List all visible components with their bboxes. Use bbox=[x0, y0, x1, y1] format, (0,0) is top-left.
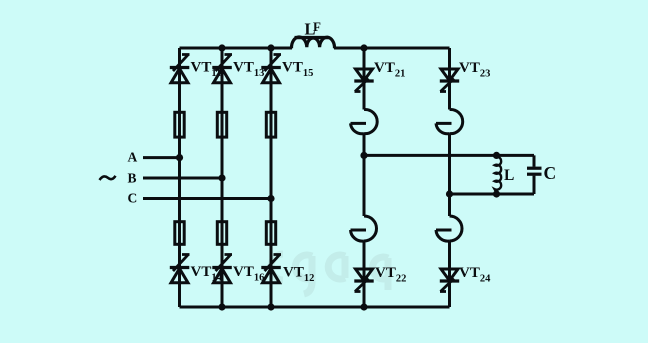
svg-text:F: F bbox=[313, 19, 321, 34]
svg-text:A: A bbox=[128, 150, 138, 165]
svg-text:B: B bbox=[128, 171, 137, 186]
svg-text:C: C bbox=[544, 163, 557, 183]
svg-text:C: C bbox=[128, 191, 138, 206]
svg-text:L: L bbox=[504, 167, 514, 184]
